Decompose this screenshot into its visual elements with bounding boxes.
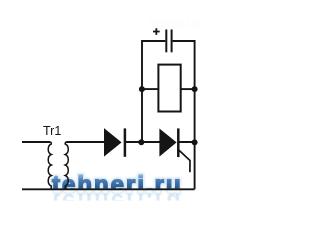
right rail capacitor down to bottom [173, 41, 195, 189]
wire left rail to box [142, 88, 158, 90]
svg-text:Tr1: Tr1 [43, 124, 61, 138]
diode D1 [105, 129, 121, 155]
diode D1 cathode bar [124, 128, 127, 156]
wire node A to thyristor VS1 anode [141, 141, 160, 143]
wire top left [22, 141, 50, 143]
node C dot [139, 86, 145, 92]
wire D1 to node A [125, 141, 141, 143]
wire secondary to diode D1 [67, 141, 105, 143]
capacitor C1 right plate [171, 30, 173, 53]
load resistor box [158, 65, 180, 112]
watermark tehneri.ru reflection [52, 188, 183, 215]
capacitor C1 plus sign [153, 28, 160, 35]
svg-text:tehneri.ru: tehneri.ru [149, 16, 204, 30]
wire VS1 cathode to node B [178, 141, 194, 143]
wire bottom rail [22, 188, 195, 190]
wire box to right rail [181, 88, 195, 90]
capacitor C1 left plate [165, 30, 167, 53]
left rail node A up to capacitor [142, 41, 165, 142]
thyristor VS1 gate lead [179, 150, 190, 172]
node B dot [192, 139, 198, 145]
transformer Tr1 primary winding [48, 142, 51, 189]
node D dot [192, 86, 198, 92]
thyristor VS1 cathode bar [177, 128, 180, 157]
transformer Tr1 secondary winding [65, 142, 68, 189]
svg-text:tehneri.ru: tehneri.ru [52, 172, 183, 199]
node A dot [138, 139, 144, 145]
thyristor VS1 [160, 130, 176, 156]
